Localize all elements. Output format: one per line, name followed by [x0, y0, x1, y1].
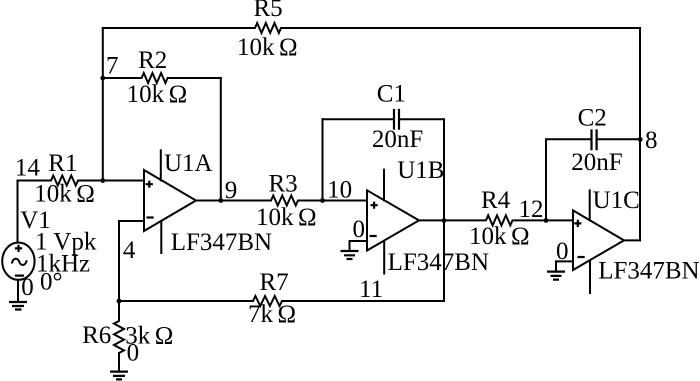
svg-text:R7: R7 [260, 269, 289, 296]
svg-text:0: 0 [353, 216, 366, 243]
junction node 4 row [117, 299, 122, 304]
ground under V1 [9, 302, 27, 310]
svg-text:7: 7 [106, 53, 119, 80]
svg-text:14: 14 [15, 155, 41, 182]
op-amp U1A plus mark [146, 181, 153, 188]
svg-text:LF347BN: LF347BN [388, 249, 489, 276]
wire U1B output row with resistor R4 body [419, 215, 573, 225]
wire left vertical node 7 [102, 28, 104, 181]
source V1 minus mark [15, 275, 24, 277]
wire R2 row with resistor R2 body [103, 73, 221, 83]
svg-text:LF347BN: LF347BN [598, 258, 699, 285]
wire node 11 row with resistor R7 body [119, 296, 444, 306]
svg-text:8: 8 [645, 127, 658, 154]
source V1 plus mark [15, 245, 22, 252]
node 8 junction [638, 137, 643, 142]
svg-text:U1C: U1C [593, 187, 640, 214]
svg-text:R6: R6 [82, 322, 111, 349]
svg-text:20nF: 20nF [372, 126, 423, 153]
wire U1A inverting input [119, 221, 144, 301]
svg-text:U1A: U1A [164, 150, 213, 177]
op-amp U1A triangle [144, 170, 196, 231]
junction C1 R7 branch at output row [442, 218, 447, 223]
wire U1C output [624, 239, 640, 241]
op-amp U1A minus mark [147, 216, 154, 218]
svg-text:C1: C1 [377, 80, 406, 107]
svg-text:10kΩ: 10kΩ [34, 180, 95, 207]
svg-text:R2: R2 [138, 47, 167, 74]
wire C1 top right segment [399, 118, 444, 120]
wire R2 right vertical to node 9 [220, 78, 222, 201]
svg-text:0: 0 [556, 238, 569, 265]
op-amp U1B triangle [367, 190, 419, 250]
op-amp U1A power pins [160, 150, 163, 253]
wire V1 bottom stem [17, 280, 19, 302]
op-amp U1C plus mark [574, 220, 581, 227]
svg-text:10: 10 [327, 177, 352, 204]
svg-text:C2: C2 [578, 104, 607, 131]
svg-text:0: 0 [127, 339, 140, 366]
svg-text:7kΩ: 7kΩ [248, 301, 296, 328]
node 9 junction [218, 198, 223, 203]
ground at U1C [547, 272, 565, 280]
svg-text:R4: R4 [481, 187, 511, 214]
op-amp U1B power pins [383, 170, 385, 274]
source V1 circle [2, 243, 34, 280]
wire U1A output row node 9 with resistor R3 body [196, 196, 367, 206]
wire V1 top stem [17, 181, 19, 243]
source V1 sine mark [12, 259, 27, 265]
svg-text:10kΩ: 10kΩ [237, 34, 298, 61]
capacitor C2 plates [592, 129, 597, 150]
wire C1 left branch [322, 119, 324, 200]
node 10 junction [320, 198, 325, 203]
op-amp U1C triangle [573, 210, 624, 270]
svg-text:20nF: 20nF [571, 149, 622, 176]
svg-text:9: 9 [225, 177, 238, 204]
svg-text:10kΩ: 10kΩ [256, 204, 317, 231]
junction node 7 to R1 row [100, 178, 105, 183]
ground under R6 [110, 372, 128, 380]
wire top net with resistor R5 body [103, 23, 640, 33]
svg-text:R5: R5 [254, 0, 283, 22]
wire U1C inverting input to ground [556, 261, 573, 271]
wire C2 left branch [545, 139, 547, 220]
svg-text:U1B: U1B [397, 157, 444, 184]
svg-text:0°: 0° [40, 269, 63, 296]
ground at U1B [341, 251, 359, 259]
op-amp U1C minus mark [578, 256, 585, 258]
svg-text:11: 11 [359, 276, 383, 303]
op-amp U1C power pins [589, 190, 591, 293]
wire C1 top left segment [323, 118, 394, 120]
svg-text:10kΩ: 10kΩ [127, 81, 188, 108]
op-amp U1B plus mark [371, 202, 378, 209]
wire U1B inverting input to ground [350, 241, 368, 251]
svg-text:0: 0 [21, 274, 34, 301]
svg-text:R3: R3 [269, 171, 298, 198]
svg-text:10kΩ: 10kΩ [469, 223, 530, 250]
wire C2 top right segment [597, 138, 640, 140]
wire C2 top left segment [546, 138, 592, 140]
node 12 junction [544, 218, 549, 223]
svg-text:LF347BN: LF347BN [171, 229, 272, 256]
wire R1 row with resistor R1 body [18, 176, 145, 186]
svg-text:R1: R1 [48, 150, 77, 177]
node 7 junction [100, 76, 105, 81]
svg-text:12: 12 [519, 196, 544, 223]
svg-text:4: 4 [123, 237, 136, 264]
op-amp U1B minus mark [370, 235, 377, 237]
wire right vertical feedback net [639, 28, 641, 240]
capacitor C1 plates [394, 109, 399, 130]
resistor R6 body vertical [114, 301, 124, 372]
wire C1 right branch down to node 11 row [443, 119, 445, 301]
